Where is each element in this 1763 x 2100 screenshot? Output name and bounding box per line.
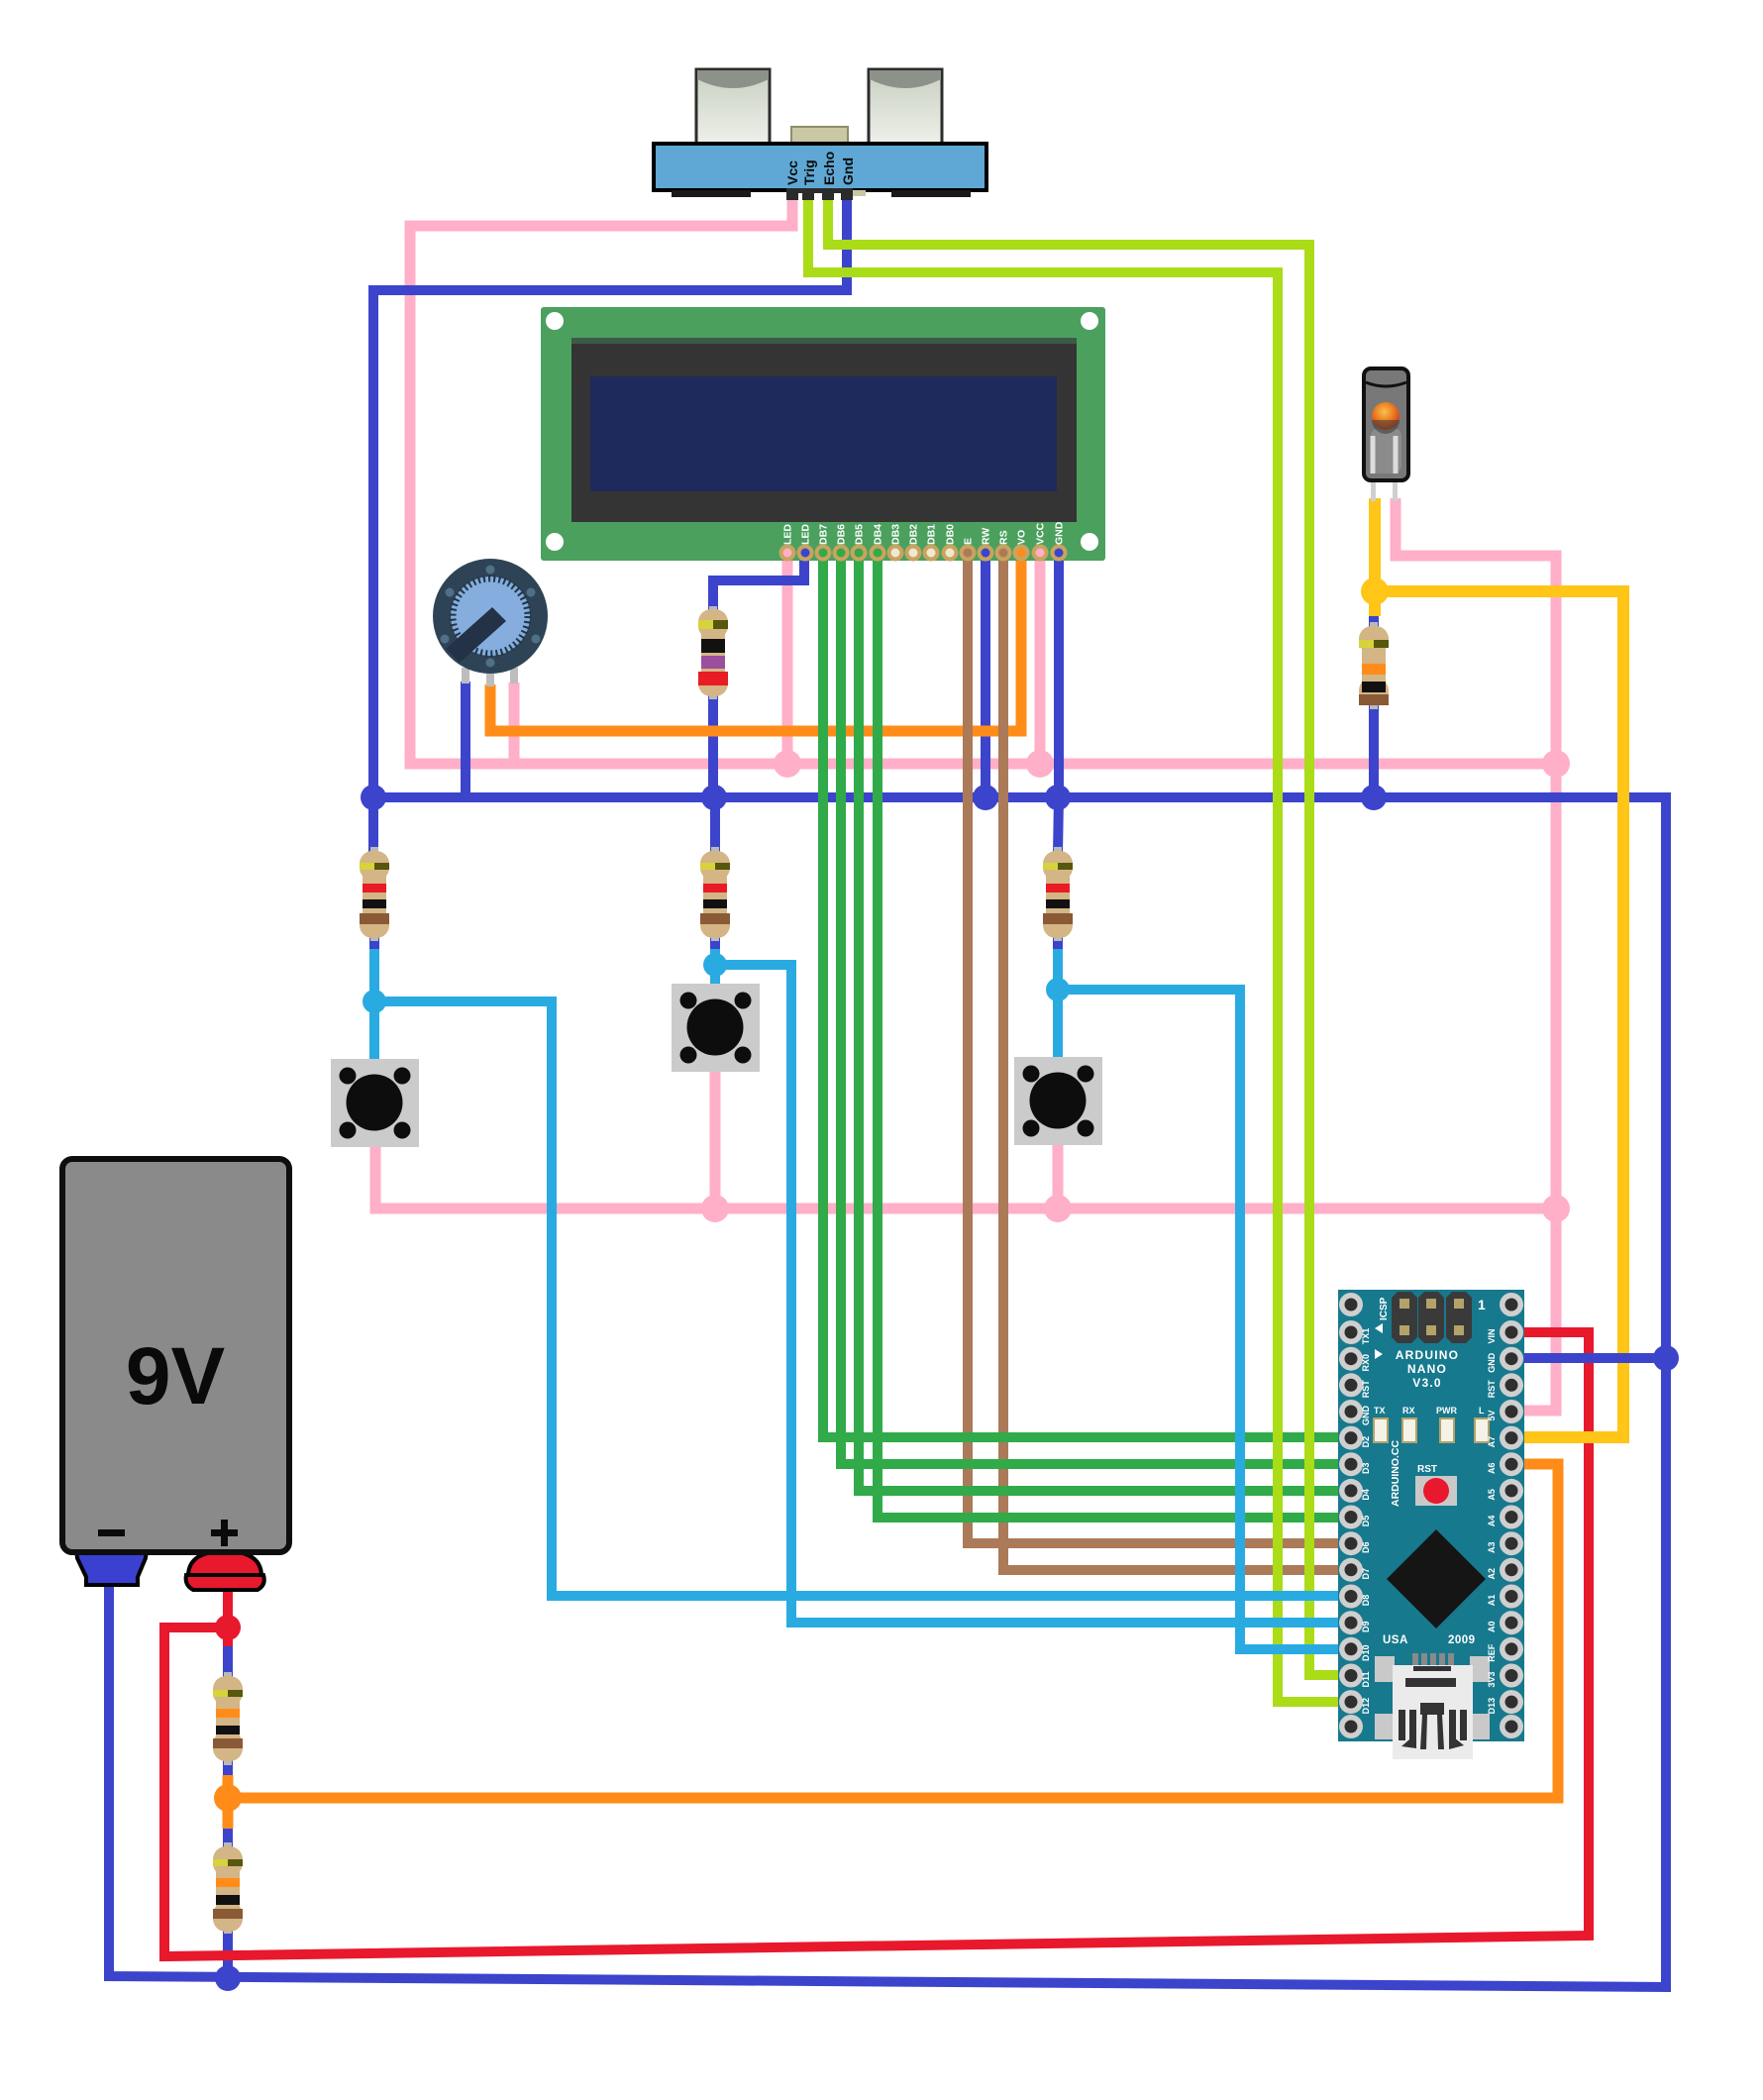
svg-text:V3.0: V3.0 bbox=[1412, 1376, 1442, 1390]
junction dot pink bus2 at button S3 bbox=[1044, 1195, 1072, 1222]
svg-text:TX1: TX1 bbox=[1361, 1328, 1371, 1345]
ultrasonic sensor HC-SR04 bbox=[654, 69, 986, 200]
wire blue lead below resistor R6 bbox=[1053, 937, 1063, 953]
wire yellow LED anode lead bbox=[1369, 498, 1381, 616]
battery minus sign bbox=[98, 1529, 125, 1536]
Arduino pin D4 bbox=[1339, 1479, 1363, 1503]
junction dot orange divider mid-point bbox=[214, 1784, 242, 1812]
svg-text:D7: D7 bbox=[1361, 1568, 1371, 1580]
svg-text:D5: D5 bbox=[1361, 1516, 1371, 1527]
wire blue LCD RW pin to ground bus bbox=[981, 551, 990, 797]
LED body bbox=[1364, 368, 1408, 480]
svg-text:Echo: Echo bbox=[821, 152, 837, 185]
sensor right transducer bbox=[869, 69, 942, 146]
wire pink potentiometer right leg to pink bus bbox=[509, 682, 520, 764]
battery body bbox=[62, 1159, 289, 1552]
Arduino pin D11 bbox=[1339, 1664, 1363, 1688]
wire blue ground bus to resistor R3 bbox=[368, 797, 378, 854]
Arduino pin A6 bbox=[1500, 1452, 1523, 1476]
junction dot pink bus2 at 5V riser bbox=[1542, 1195, 1570, 1222]
svg-text:D2: D2 bbox=[1361, 1436, 1371, 1448]
wire pink LED cathode to Arduino 5V bbox=[1396, 498, 1556, 1411]
battery plus sign bbox=[211, 1529, 238, 1536]
junction dot ground bus at LED resistor bbox=[1361, 785, 1387, 810]
svg-text:D6: D6 bbox=[1361, 1541, 1371, 1553]
svg-text:D11: D11 bbox=[1361, 1671, 1371, 1687]
wire cyan resistor R6 to button S3 and Arduino D10 bbox=[1058, 949, 1349, 1649]
junction dot cyan at button S3 bbox=[1046, 978, 1070, 1001]
svg-text:DB6: DB6 bbox=[836, 524, 848, 545]
Arduino pin A4 bbox=[1500, 1506, 1523, 1529]
sensor crystal bbox=[791, 127, 848, 145]
wire pink button bus 2 bbox=[375, 1144, 1556, 1208]
LCD pad DB2 bbox=[905, 545, 922, 562]
pushbutton S1 bbox=[331, 1059, 419, 1147]
Arduino pin D10 bbox=[1339, 1637, 1363, 1661]
wire pink button S3 leg bbox=[1053, 1141, 1064, 1208]
potentiometer body bbox=[433, 559, 548, 674]
svg-text:VO: VO bbox=[1016, 530, 1028, 545]
svg-text:9V: 9V bbox=[126, 1331, 226, 1421]
wire green LCD DB5 to Arduino D4 bbox=[859, 551, 1349, 1491]
Arduino ICSP header bbox=[1392, 1292, 1417, 1343]
junction dot cyan at button S1 bbox=[363, 990, 386, 1013]
wire blue lead above resistor R8 bbox=[223, 1825, 233, 1850]
LCD pin pads and labels bbox=[779, 521, 1068, 561]
Arduino pin TX1 bbox=[1339, 1320, 1363, 1344]
LCD pad RS bbox=[995, 545, 1012, 562]
svg-text:D8: D8 bbox=[1361, 1595, 1371, 1607]
svg-text:RST: RST bbox=[1417, 1464, 1437, 1475]
resistor R6 (above button S3) bbox=[1043, 847, 1073, 941]
wire pink sensor Vcc to +5V pink bus bbox=[410, 195, 1556, 764]
WIRES-START bbox=[109, 195, 1666, 1987]
Arduino pin A0 bbox=[1500, 1611, 1523, 1634]
svg-text:LED: LED bbox=[782, 524, 794, 545]
Arduino status LEDs bbox=[1374, 1418, 1388, 1442]
wire brown LCD RS to Arduino D7 bbox=[1003, 551, 1349, 1570]
wire blue LCD GND pin to ground bus and resistor R6 bbox=[1058, 551, 1059, 854]
svg-text:VCC: VCC bbox=[1035, 522, 1047, 545]
wire blue resistor R4 to ground bus bbox=[708, 691, 718, 797]
svg-text:NANO: NANO bbox=[1407, 1362, 1447, 1376]
Arduino pin D6 bbox=[1339, 1531, 1363, 1555]
battery minus terminal bbox=[76, 1550, 147, 1585]
wire blue sensor Gnd to ground bus bbox=[373, 195, 847, 797]
junction dot pink bus2 at button S2 bbox=[701, 1195, 729, 1222]
wire blue lead above resistor R7 bbox=[223, 1644, 233, 1680]
Arduino pin D9 bbox=[1339, 1611, 1363, 1634]
Arduino pin A3 bbox=[1500, 1531, 1523, 1555]
wire blue LCD LED2 pin to resistor R4 bbox=[713, 551, 804, 614]
Arduino pin GND bbox=[1500, 1347, 1523, 1371]
Arduino board bbox=[1338, 1290, 1524, 1741]
LCD pad LED2 bbox=[797, 545, 814, 562]
svg-text:RX0: RX0 bbox=[1361, 1354, 1371, 1372]
svg-text:1: 1 bbox=[1478, 1297, 1486, 1312]
Arduino pin A5 bbox=[1500, 1479, 1523, 1503]
Arduino RX0 marker bbox=[1375, 1349, 1383, 1359]
wire yellow LED junction to Arduino A7 bbox=[1375, 591, 1623, 1437]
junction dot pink bus at LCD LED pin bbox=[774, 750, 801, 778]
Arduino pin rows bbox=[1339, 1293, 1523, 1738]
Arduino pin 3V3 bbox=[1500, 1664, 1523, 1688]
wire blue lead below resistor R8 to bottom ground bbox=[223, 1924, 233, 1978]
wire red battery plus to junction bbox=[223, 1583, 233, 1646]
resistor R7 (battery divider top) bbox=[213, 1672, 243, 1765]
svg-text:DB1: DB1 bbox=[926, 524, 938, 545]
Arduino pin D8 bbox=[1339, 1585, 1363, 1609]
svg-text:Gnd: Gnd bbox=[840, 157, 856, 185]
resistor R5 (above button S2) bbox=[700, 847, 730, 941]
sensor board bbox=[654, 144, 986, 190]
resistor R4 (LCD backlight, under LED2 pin) bbox=[698, 606, 728, 699]
svg-text:D4: D4 bbox=[1361, 1489, 1371, 1501]
potentiometer legs bbox=[462, 668, 469, 683]
wire chartreuse sensor Trig to Arduino D12 bbox=[808, 195, 1349, 1702]
svg-text:2009: 2009 bbox=[1448, 1634, 1476, 1646]
svg-text:DB4: DB4 bbox=[873, 524, 884, 545]
sensor pin Echo bbox=[822, 188, 834, 200]
svg-text:DB0: DB0 bbox=[945, 524, 957, 545]
svg-text:USA: USA bbox=[1383, 1634, 1408, 1646]
wire blue lead below resistor R5 bbox=[710, 937, 720, 953]
sensor pin Vcc bbox=[786, 188, 798, 200]
battery plus terminal bbox=[188, 1551, 261, 1575]
Arduino pin REF bbox=[1500, 1637, 1523, 1661]
wire cyan button S2 top leg bbox=[710, 965, 720, 987]
LCD screw hole bottom-right bbox=[1081, 533, 1098, 551]
wire blue ground bus to battery minus bbox=[109, 797, 1666, 1987]
LCD pad DB6 bbox=[833, 545, 850, 562]
LCD screw hole top-left bbox=[546, 312, 564, 330]
LCD pad DB3 bbox=[887, 545, 904, 562]
wire green LCD DB6 to Arduino D3 bbox=[841, 551, 1349, 1464]
Arduino pin D3 bbox=[1339, 1452, 1363, 1476]
svg-text:VIN: VIN bbox=[1487, 1328, 1497, 1343]
svg-text:E: E bbox=[963, 538, 975, 545]
LED legs bbox=[1371, 436, 1376, 501]
LCD board bbox=[541, 307, 1105, 561]
junction dot ground at battery resistor chain bbox=[215, 1965, 241, 1991]
LCD pad RW bbox=[978, 545, 994, 562]
LCD screw hole bottom-left bbox=[546, 533, 564, 551]
wire orange divider junction to Arduino A6 bbox=[228, 1464, 1558, 1798]
svg-text:RST: RST bbox=[1361, 1380, 1371, 1399]
resistor R8 (battery divider bottom) bbox=[213, 1842, 243, 1934]
Arduino pin GND bbox=[1339, 1400, 1363, 1423]
junction dot ground bus at LCD RW bbox=[973, 785, 998, 810]
Arduino reset button bbox=[1415, 1476, 1457, 1506]
junction dot ground bus at R4/R5 bbox=[701, 785, 727, 810]
sensor left transducer bbox=[696, 69, 770, 146]
Arduino pin D5 bbox=[1339, 1506, 1363, 1529]
Arduino pin D12 bbox=[1339, 1690, 1363, 1714]
wire green LCD DB7 to Arduino D2 bbox=[823, 551, 1349, 1437]
LCD pad DB5 bbox=[851, 545, 868, 562]
wire orange LCD VO pin to potentiometer wiper bbox=[490, 551, 1021, 731]
resistor R2 (LED series) bbox=[1359, 622, 1389, 709]
svg-text:D13: D13 bbox=[1487, 1698, 1497, 1715]
svg-text:D3: D3 bbox=[1361, 1462, 1371, 1474]
sensor pin Trig bbox=[802, 188, 814, 200]
Arduino MCU chip bbox=[1387, 1529, 1486, 1628]
svg-text:RS: RS bbox=[998, 530, 1010, 545]
wire cyan resistor R3 to button S1 and Arduino D8 bbox=[374, 949, 1349, 1596]
LCD pad LED bbox=[779, 545, 796, 562]
svg-text:A1: A1 bbox=[1487, 1595, 1497, 1607]
Arduino USB side tabs bbox=[1375, 1656, 1395, 1682]
svg-text:RST: RST bbox=[1487, 1380, 1497, 1399]
svg-text:D12: D12 bbox=[1361, 1698, 1371, 1715]
wire chartreuse sensor Echo to Arduino D11 bbox=[828, 195, 1349, 1675]
svg-text:A2: A2 bbox=[1487, 1568, 1497, 1580]
LCD pad DB0 bbox=[942, 545, 959, 562]
svg-text:DB5: DB5 bbox=[854, 524, 866, 545]
wire blue LED resistor R2 to ground bus bbox=[1369, 703, 1379, 797]
svg-text:GND: GND bbox=[1487, 1352, 1497, 1373]
svg-text:ARDUINO.CC: ARDUINO.CC bbox=[1390, 1440, 1401, 1507]
svg-text:A3: A3 bbox=[1487, 1541, 1497, 1553]
wire pink button S2 leg bbox=[710, 1070, 721, 1208]
svg-text:DB7: DB7 bbox=[818, 524, 830, 545]
LCD bezel bbox=[571, 338, 1077, 522]
LCD screen bbox=[590, 376, 1057, 491]
junction dot pink bus at LCD VCC pin bbox=[1026, 750, 1054, 778]
Arduino mini-USB connector bbox=[1393, 1665, 1473, 1759]
wire blue lead below resistor R7 bbox=[223, 1753, 233, 1779]
wire cyan resistor R5 to button S2 and Arduino D9 bbox=[715, 949, 1349, 1623]
wire pink LCD VCC pin to pink bus bbox=[1035, 551, 1046, 764]
junction dot ground bus at LCD GND/R6 bbox=[1045, 785, 1071, 810]
Arduino pin A7 bbox=[1500, 1426, 1523, 1450]
wire blue lead above resistor R2 bbox=[1369, 608, 1379, 630]
LED die bbox=[1372, 402, 1400, 430]
svg-text:LED: LED bbox=[800, 524, 812, 545]
svg-text:L: L bbox=[1479, 1406, 1485, 1416]
svg-text:RW: RW bbox=[981, 528, 992, 545]
svg-text:TX: TX bbox=[1374, 1406, 1386, 1416]
Arduino pin D7 bbox=[1339, 1558, 1363, 1582]
junction dot red at battery plus bbox=[215, 1615, 241, 1640]
LCD pad GND bbox=[1051, 545, 1068, 562]
svg-text:GND: GND bbox=[1361, 1406, 1371, 1426]
potentiometer RV1 bbox=[433, 559, 548, 686]
wire blue ground bus to resistor R5 bbox=[710, 797, 720, 854]
LCD pad DB7 bbox=[815, 545, 832, 562]
junction dot cyan at button S2 bbox=[703, 953, 727, 977]
svg-text:Trig: Trig bbox=[801, 159, 817, 185]
LCD display 16x2 bbox=[541, 307, 1105, 561]
svg-text:PWR: PWR bbox=[1436, 1406, 1457, 1416]
Arduino pin 5V bbox=[1500, 1400, 1523, 1423]
Arduino pin VIN bbox=[1500, 1320, 1523, 1344]
svg-text:D9: D9 bbox=[1361, 1621, 1371, 1632]
junction dot ground at Arduino GND pin bbox=[1653, 1345, 1679, 1371]
wire cyan button S1 top leg bbox=[369, 1001, 379, 1062]
svg-text:5V: 5V bbox=[1487, 1410, 1497, 1420]
svg-text:A0: A0 bbox=[1487, 1621, 1497, 1632]
svg-text:ICSP: ICSP bbox=[1379, 1297, 1390, 1320]
Arduino pin RST bbox=[1339, 1373, 1363, 1397]
LED D1 bbox=[1364, 368, 1408, 501]
svg-text:DB2: DB2 bbox=[908, 524, 920, 545]
junction dot ground bus at R3 bbox=[361, 785, 386, 810]
wire blue potentiometer left leg to ground bus bbox=[461, 682, 470, 797]
wire red junction to Arduino VIN bbox=[164, 1332, 1589, 1956]
svg-text:DB3: DB3 bbox=[890, 524, 902, 545]
Arduino Nano U1 bbox=[1338, 1290, 1524, 1759]
svg-text:A4: A4 bbox=[1487, 1516, 1497, 1527]
svg-text:RX: RX bbox=[1402, 1406, 1415, 1416]
pushbutton S3 bbox=[1014, 1057, 1102, 1145]
LCD pad DB1 bbox=[923, 545, 940, 562]
sensor pin Gnd bbox=[841, 188, 853, 200]
svg-text:REF: REF bbox=[1487, 1643, 1497, 1662]
svg-text:Vcc: Vcc bbox=[784, 160, 800, 185]
svg-text:A7: A7 bbox=[1487, 1436, 1497, 1448]
wire blue ground bus junction to Arduino GND pin bbox=[1520, 1353, 1666, 1363]
potentiometer pointer bbox=[446, 607, 506, 663]
LCD pad DB4 bbox=[870, 545, 886, 562]
svg-text:GND: GND bbox=[1054, 521, 1066, 545]
pushbutton S2 bbox=[672, 984, 760, 1072]
Arduino TX1 marker bbox=[1375, 1323, 1383, 1333]
svg-text:D10: D10 bbox=[1361, 1645, 1371, 1662]
battery 9V bbox=[62, 1159, 289, 1590]
LCD pad VCC bbox=[1032, 545, 1049, 562]
Arduino pin labels bbox=[1361, 1323, 1497, 1714]
svg-text:A5: A5 bbox=[1487, 1489, 1497, 1501]
svg-text:A6: A6 bbox=[1487, 1462, 1497, 1474]
svg-text:3V3: 3V3 bbox=[1487, 1671, 1497, 1687]
svg-text:ARDUINO: ARDUINO bbox=[1396, 1348, 1459, 1362]
wire orange leads at divider junction bbox=[223, 1775, 234, 1829]
Arduino pin RST bbox=[1500, 1373, 1523, 1397]
junction dot pink bus1 at 5V riser bbox=[1542, 750, 1570, 778]
wire green LCD DB4 to Arduino D5 bbox=[878, 551, 1349, 1518]
Arduino pin D13 bbox=[1500, 1690, 1523, 1714]
resistor R3 (above button S1) bbox=[360, 847, 389, 941]
Arduino pin D2 bbox=[1339, 1426, 1363, 1450]
Arduino USB pins bbox=[1412, 1653, 1418, 1667]
LCD pad E bbox=[960, 545, 977, 562]
LCD pad VO bbox=[1013, 545, 1030, 562]
junction dot yellow at LED anode bbox=[1361, 577, 1389, 605]
Arduino pin RX0 bbox=[1339, 1347, 1363, 1371]
sensor bottom tabs bbox=[672, 190, 751, 197]
potentiometer knob bbox=[451, 577, 530, 656]
wire pink LCD LED pin to pink bus bbox=[782, 551, 793, 764]
Arduino corner holes bbox=[1339, 1293, 1363, 1316]
wire cyan button S3 top leg bbox=[1053, 990, 1063, 1060]
wire brown LCD E to Arduino D6 bbox=[968, 551, 1349, 1543]
LCD screw hole top-right bbox=[1081, 312, 1098, 330]
Arduino pin A2 bbox=[1500, 1558, 1523, 1582]
LED inner window bbox=[1371, 428, 1401, 473]
Arduino pin A1 bbox=[1500, 1585, 1523, 1609]
wire blue lead below resistor R3 bbox=[369, 937, 379, 953]
